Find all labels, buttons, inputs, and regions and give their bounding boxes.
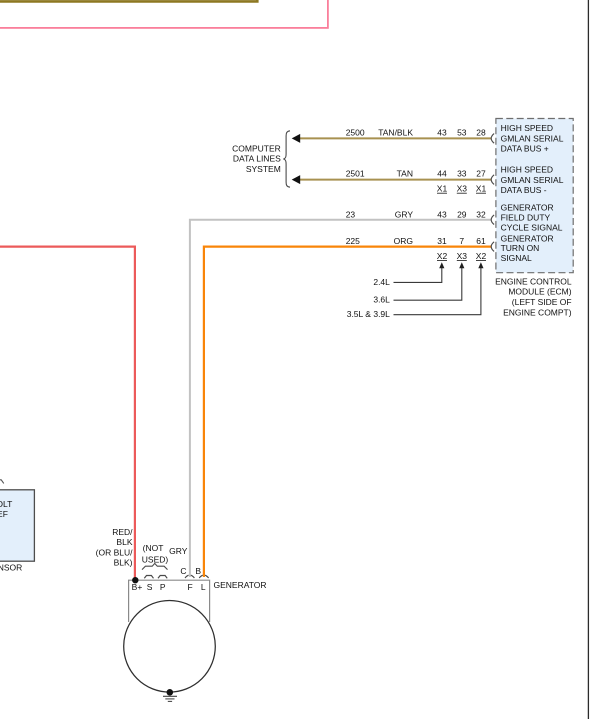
svg-text:(LEFT SIDE OF: (LEFT SIDE OF: [512, 297, 572, 307]
svg-text:X2: X2: [437, 251, 448, 261]
svg-text:MODULE (ECM): MODULE (ECM): [508, 287, 571, 297]
svg-text:(NOT: (NOT: [143, 543, 164, 553]
label GENERATOR: [214, 580, 267, 590]
terminal bump S: [144, 576, 153, 579]
svg-text:CYCLE SIGNAL: CYCLE SIGNAL: [501, 222, 563, 232]
svg-text:3.5L & 3.9L: 3.5L & 3.9L: [347, 309, 390, 319]
svg-text:ENGINE CONTROL: ENGINE CONTROL: [495, 277, 572, 287]
labels wire 2501: 2501 TAN 44 33 27: [346, 169, 486, 179]
svg-text:ENGINE COMPT): ENGINE COMPT): [503, 307, 572, 317]
connector arc at ECM pin 32: [491, 215, 494, 225]
ECM module box: [496, 119, 573, 273]
label COMPUTER DATA LINES SYSTEM: [232, 144, 281, 174]
svg-text:DATA BUS +: DATA BUS +: [501, 144, 549, 154]
svg-text:X3: X3: [457, 184, 468, 194]
terminal labels C B above F L: [180, 566, 201, 576]
label (NOT USED): [142, 543, 169, 564]
svg-text:TAN: TAN: [397, 169, 413, 179]
svg-text:VOLT: VOLT: [0, 499, 12, 509]
connector arc at ECM pin 27: [491, 175, 494, 185]
svg-text:B+: B+: [132, 582, 143, 592]
labels wire 23: 23 GRY 43 29 32: [346, 209, 486, 219]
svg-text:REF: REF: [0, 509, 8, 519]
svg-text:53: 53: [457, 127, 467, 137]
ECM internal label: GENERATOR FIELD DUTY CYCLE SIGNAL: [501, 203, 563, 233]
module box (partial, top left, pink outline): [0, 0, 328, 28]
svg-text:GMLAN SERIAL: GMLAN SERIAL: [501, 133, 564, 143]
svg-text:SENSOR: SENSOR: [0, 563, 22, 573]
callout 2.4L arrow to X2: [373, 262, 444, 287]
svg-text:GRY: GRY: [395, 209, 414, 219]
brace arm (partial, left edge): [0, 480, 4, 484]
svg-text:7: 7: [459, 236, 464, 246]
callout 3.6L arrow to X3: [373, 262, 464, 304]
svg-text:31: 31: [437, 236, 447, 246]
arrowhead wire 2501: [292, 175, 301, 184]
svg-text:GENERATOR: GENERATOR: [214, 580, 267, 590]
svg-text:61: 61: [476, 236, 486, 246]
svg-text:HIGH SPEED: HIGH SPEED: [501, 165, 553, 175]
svg-text:BLK: BLK: [116, 537, 132, 547]
svg-text:27: 27: [476, 169, 486, 179]
labels wire 2500: 2500 TAN/BLK 43 53 28: [346, 127, 486, 137]
wire 2501 TAN to ECM: [299, 179, 491, 181]
callout 3.5L & 3.9L arrow to X2: [347, 262, 484, 319]
svg-text:P: P: [160, 582, 166, 592]
wire 2500 TAN/BLK to ECM: [299, 137, 491, 139]
ground dot at generator case: [167, 689, 174, 696]
svg-text:32: 32: [476, 209, 486, 219]
svg-text:GRY: GRY: [169, 546, 188, 556]
svg-text:SYSTEM: SYSTEM: [246, 164, 281, 174]
arrowhead wire 2500: [292, 134, 301, 143]
generator connector block: [129, 580, 210, 622]
wire 23 GRY: ECM to generator F terminal: [190, 220, 491, 577]
svg-text:RED/: RED/: [112, 527, 133, 537]
svg-text:2.4L: 2.4L: [373, 277, 390, 287]
svg-text:GENERATOR: GENERATOR: [501, 203, 554, 213]
terminal bump L: [199, 575, 208, 578]
svg-text:ORG: ORG: [394, 236, 413, 246]
connector labels X1 X3 X1 (underlined): [437, 184, 487, 194]
svg-text:DATA BUS -: DATA BUS -: [501, 185, 547, 195]
svg-text:FIELD DUTY: FIELD DUTY: [501, 213, 551, 223]
svg-text:X3: X3: [457, 251, 468, 261]
svg-text:L: L: [201, 582, 206, 592]
right page border line: [587, 0, 589, 719]
svg-text:HIGH SPEED: HIGH SPEED: [501, 123, 553, 133]
svg-text:BLK): BLK): [114, 557, 133, 567]
sensor box labels VOLT REF: [0, 499, 12, 519]
wire top TAN/BLK segment exiting top edge: [0, 0, 257, 1]
ECM internal label: HIGH SPEED GMLAN SERIAL DATA BUS +: [501, 123, 564, 153]
ECM caption: ENGINE CONTROL MODULE (ECM) (LEFT SIDE OF ENGINE COMPT): [495, 277, 572, 318]
junction dot at B+: [132, 577, 138, 583]
caption SENSOR (partial): [0, 563, 22, 573]
svg-text:2500: 2500: [346, 127, 365, 137]
connector labels X2 X3 X2 (underlined): [437, 251, 487, 261]
svg-text:S: S: [147, 582, 153, 592]
svg-text:43: 43: [437, 127, 447, 137]
label RED/BLK (OR BLU/BLK): [96, 527, 133, 567]
svg-text:(OR BLU/: (OR BLU/: [96, 547, 133, 557]
terminal bump F: [185, 575, 194, 578]
brace over S and P terminals: [142, 563, 168, 569]
svg-text:28: 28: [476, 127, 486, 137]
svg-text:COMPUTER: COMPUTER: [232, 144, 281, 154]
svg-text:DATA LINES: DATA LINES: [233, 154, 281, 164]
sensor module box (partial, left edge): [0, 490, 34, 561]
connector arc at ECM pin 28: [491, 134, 494, 144]
ECM internal label: GENERATOR TURN ON SIGNAL: [501, 233, 554, 263]
svg-text:2501: 2501: [346, 169, 365, 179]
terminal bump P: [158, 576, 167, 579]
svg-text:43: 43: [437, 209, 447, 219]
label GRY at generator: [169, 546, 188, 556]
svg-text:C: C: [180, 566, 186, 576]
svg-text:TURN ON: TURN ON: [501, 243, 540, 253]
svg-text:GENERATOR: GENERATOR: [501, 233, 554, 243]
generator body circle: [124, 601, 216, 693]
ECM internal label: HIGH SPEED GMLAN SERIAL DATA BUS -: [501, 165, 564, 195]
svg-text:225: 225: [346, 236, 360, 246]
svg-text:TAN/BLK: TAN/BLK: [378, 127, 413, 137]
svg-text:33: 33: [457, 169, 467, 179]
wire RED/BLK battery feed to generator B+: [0, 247, 135, 581]
svg-text:SIGNAL: SIGNAL: [501, 253, 532, 263]
svg-text:44: 44: [437, 169, 447, 179]
svg-text:USED): USED): [142, 554, 169, 564]
ground symbol: [163, 696, 177, 701]
brace for computer data lines system: [283, 131, 290, 187]
svg-text:3.6L: 3.6L: [373, 295, 390, 305]
svg-text:23: 23: [346, 209, 356, 219]
svg-text:X2: X2: [476, 251, 487, 261]
wire 225 ORG: ECM to generator L terminal: [204, 247, 491, 577]
svg-text:29: 29: [457, 209, 467, 219]
svg-text:X1: X1: [476, 184, 487, 194]
connector arc at ECM pin 61: [491, 242, 494, 252]
svg-text:F: F: [187, 582, 192, 592]
svg-text:B: B: [195, 566, 201, 576]
terminal labels B+ S P F L: [132, 582, 206, 592]
svg-text:X1: X1: [437, 184, 448, 194]
labels wire 225: 225 ORG 31 7 61: [346, 236, 486, 246]
svg-text:GMLAN SERIAL: GMLAN SERIAL: [501, 175, 564, 185]
